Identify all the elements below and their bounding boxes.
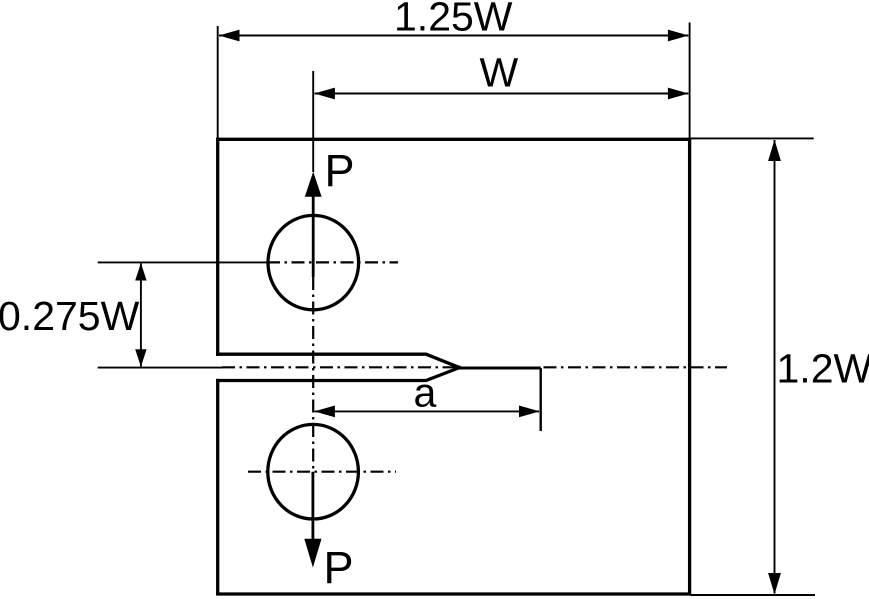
horizontal centerline upper hole <box>267 261 398 263</box>
upper pin hole <box>268 215 359 309</box>
horizontal centerline lower hole <box>248 471 396 473</box>
dimension a: dimension line <box>315 410 540 412</box>
dimension a: right arrowhead <box>519 406 540 418</box>
dimension 1.2W: top extension line <box>691 137 814 139</box>
svg-text:1.2W: 1.2W <box>777 346 869 392</box>
dimension a: left arrowhead <box>314 406 335 418</box>
notch lower edge <box>218 368 460 381</box>
horizontal centerline right of crack tip <box>544 366 728 368</box>
vertical centerline through holes <box>312 277 314 472</box>
lower pin hole <box>268 424 359 519</box>
dimension 0.275W: up arrowhead <box>135 263 146 281</box>
dimension 1.25W: dimension line <box>219 35 688 37</box>
dimension 1.25W: right arrowhead <box>668 30 689 42</box>
dimension 0.275W: top extension line <box>98 261 267 263</box>
dimension 1.25W: left arrowhead <box>219 30 240 42</box>
load arrow P down (head) <box>304 539 321 568</box>
svg-text:P: P <box>324 542 354 593</box>
dimension 0.275W: dimension line <box>140 264 142 367</box>
load arrow P up (shaft) <box>312 196 315 277</box>
load arrow P up (head) <box>305 172 322 197</box>
dimension 1.2W: down arrowhead <box>768 573 781 594</box>
dimension 0.275W: down arrowhead <box>135 349 146 367</box>
svg-text:a: a <box>414 369 437 415</box>
crack line from notch tip <box>460 367 541 370</box>
svg-text:1.25W: 1.25W <box>394 0 513 39</box>
dimension a: extension line at crack tip <box>540 368 542 431</box>
specimen outline <box>218 139 690 594</box>
dimension 1.25W: left extension line <box>217 26 219 139</box>
svg-text:W: W <box>480 50 519 96</box>
dimension W: left arrowhead <box>314 88 335 100</box>
svg-text:0.275W: 0.275W <box>0 293 140 339</box>
dimension 1.2W: bottom extension line <box>691 594 815 596</box>
dimension 1.2W: up arrowhead <box>768 140 781 161</box>
load arrow P down (shaft) <box>311 472 314 540</box>
notch upper edge <box>218 354 460 367</box>
dimension W: right arrowhead <box>668 88 689 100</box>
dimension 1.2W: dimension line <box>774 140 776 594</box>
dimension 1.25W: right extension line <box>689 23 691 140</box>
dimension W: left extension line (continues to P arrow) <box>312 71 314 172</box>
dimension W: dimension line <box>315 93 689 95</box>
dimension 0.275W: bottom extension line <box>98 367 222 369</box>
horizontal centerline of notch <box>222 366 458 368</box>
svg-text:P: P <box>325 145 355 196</box>
